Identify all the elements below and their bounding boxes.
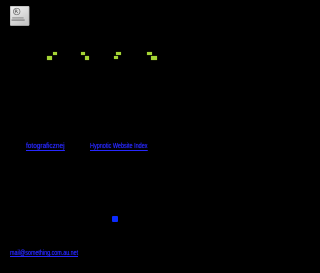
green sparkle icon pair 2 xyxy=(81,52,85,56)
bottom email link xyxy=(10,249,105,257)
green sparkle icon pair 1 xyxy=(53,52,57,55)
green sparkle icon pair 4 xyxy=(147,52,152,56)
small blue glyph xyxy=(112,216,118,222)
blue link 1 xyxy=(26,142,71,151)
gray seal badge logo top-left xyxy=(10,6,30,26)
blue link 2 xyxy=(90,142,169,151)
green sparkle icon pair 3 xyxy=(116,52,121,56)
